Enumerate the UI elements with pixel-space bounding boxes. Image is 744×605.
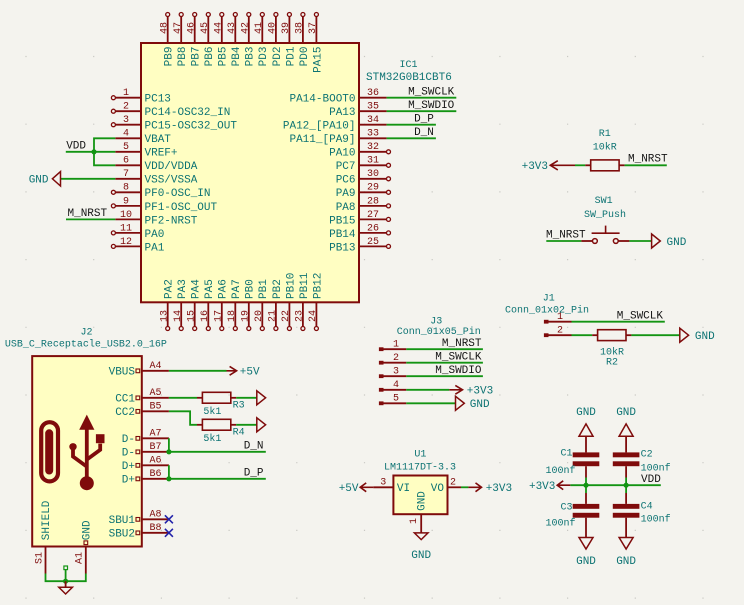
IC1 pin 24 PB12 [315,302,317,326]
wire CC2 to R4 [169,411,197,425]
svg-text:PA0: PA0 [145,229,165,241]
svg-text:PF0-OSC_IN: PF0-OSC_IN [145,188,211,200]
IC1 pin 20 PB1 [261,302,263,326]
svg-text:PB2: PB2 [272,279,284,299]
J2 pin A6 D+ [142,464,169,466]
J2 pin B7 D- [142,451,169,453]
svg-text:C1: C1 [560,449,572,460]
svg-text:M_SWCLK: M_SWCLK [617,310,664,322]
svg-text:PD3: PD3 [258,47,270,67]
svg-text:36: 36 [367,88,379,99]
svg-text:C2: C2 [641,450,653,461]
wire M_NRST to SW1 [546,240,581,242]
svg-text:M_SWDIO: M_SWDIO [435,365,482,377]
svg-text:VREF+: VREF+ [145,148,178,160]
svg-text:CC1: CC1 [115,394,135,406]
wire J1.2 to R2 [572,334,593,336]
wire SW1 to GND [629,240,651,242]
IC1 pin 35 PA13 [359,110,387,112]
svg-text:SW_Push: SW_Push [584,209,626,221]
IC1 pin 33 PA11_[PA9] [359,137,387,139]
svg-text:PB8: PB8 [177,47,189,67]
no-connect SBU2 [165,529,173,537]
svg-text:100nf: 100nf [545,465,575,477]
svg-text:R4: R4 [233,428,245,439]
svg-text:B7: B7 [149,442,161,453]
svg-text:42: 42 [240,22,251,34]
power symbol GND at J2 [65,581,67,587]
power symbol GND at R2 [680,328,689,342]
wire VDD to pin5 VREF+ [66,151,116,153]
junction C1 rail [583,483,588,488]
IC1 pin 44 PB5 [221,17,223,43]
capacitor C1 100nf [573,452,600,457]
svg-text:SBU1: SBU1 [109,515,136,527]
wire CC1 to R3 [169,397,197,399]
svg-text:PB13: PB13 [329,242,355,254]
wire M_NRST from J3.1 [406,348,483,350]
wire J3.4 to +3V3 [406,389,449,391]
svg-text:D-: D- [122,434,135,446]
svg-text:M_SWCLK: M_SWCLK [435,351,482,363]
power symbol +5V at U1 [360,483,373,492]
svg-text:2: 2 [123,102,129,113]
IC1 pin 2 PC14-OSC32_IN [115,110,141,112]
wire D_P from IC1 [387,124,436,126]
wire VDD to pin4 VBAT [94,138,115,165]
IC IC1 STM32G0B1CBT6 body [141,43,359,302]
IC1 pin 38 PD0 [302,17,304,43]
svg-text:D-: D- [122,448,135,460]
svg-text:GND: GND [616,407,636,419]
power symbol +3V3 at caps [557,481,570,490]
power symbol GND at R3 [257,391,266,405]
svg-text:PD2: PD2 [272,47,284,67]
J2 pin A1 GND [85,547,87,574]
svg-text:SW1: SW1 [595,196,613,207]
svg-text:PB15: PB15 [329,215,355,227]
IC1 pin 32 PA10 [359,151,387,153]
svg-text:27: 27 [367,210,379,221]
svg-text:7: 7 [123,169,129,180]
svg-text:A5: A5 [149,388,161,399]
svg-text:PB6: PB6 [204,47,216,67]
power symbol GND at U1 [414,533,428,540]
svg-text:30: 30 [367,169,379,180]
IC1 pin 39 PD1 [288,17,290,43]
svg-text:37: 37 [308,22,319,34]
svg-text:GND: GND [29,175,49,187]
svg-text:VI: VI [397,483,410,495]
wire +3V3 rail at caps [570,484,661,486]
IC1 pin 8 PF0-OSC_IN [115,191,141,193]
svg-text:A6: A6 [149,456,161,467]
wire M_SWDIO from IC1 [387,110,457,112]
svg-text:PB11: PB11 [299,272,311,299]
svg-text:43: 43 [227,22,238,34]
svg-text:39: 39 [281,22,292,34]
power symbol GND at J3 [456,396,465,410]
svg-text:VDD: VDD [66,140,86,152]
svg-text:26: 26 [367,223,379,234]
svg-text:GND: GND [411,550,431,562]
wire VO to +3V3 [461,486,468,488]
svg-text:PC15-OSC32_OUT: PC15-OSC32_OUT [145,121,238,133]
wire D_N net [169,438,266,452]
svg-text:12: 12 [120,237,132,248]
svg-text:R1: R1 [599,129,611,140]
svg-text:CC2: CC2 [115,407,135,419]
svg-text:+5V: +5V [339,483,359,495]
svg-text:PB1: PB1 [258,279,270,299]
svg-text:M_SWCLK: M_SWCLK [408,86,455,98]
IC1 pin 46 PB7 [194,17,196,43]
svg-text:4: 4 [393,380,399,391]
svg-text:2: 2 [450,478,456,489]
svg-text:PB10: PB10 [285,273,297,299]
svg-text:+3V3: +3V3 [529,481,555,493]
IC1 pin 26 PB14 [359,232,387,234]
U1 pin 2 VO [448,486,462,488]
svg-text:SHIELD: SHIELD [41,500,53,540]
svg-text:LM1117DT-3.3: LM1117DT-3.3 [384,462,456,473]
svg-text:B5: B5 [149,402,161,413]
power symbol +3V3 at R1 [550,161,575,170]
svg-text:VBAT: VBAT [145,134,172,146]
svg-text:PC13: PC13 [145,94,171,106]
power symbol +3V3 at J3 [449,385,462,394]
svg-text:D+: D+ [122,461,135,473]
svg-text:PA10: PA10 [329,148,355,160]
power symbol GND below cap [619,538,633,550]
IC1 pin 16 PA5 [207,302,209,326]
svg-text:18: 18 [227,310,238,322]
svg-text:PB3: PB3 [245,47,257,67]
J2 pin A5 CC1 [142,397,169,399]
svg-text:1: 1 [409,518,420,524]
svg-text:PA1: PA1 [145,242,165,254]
svg-text:PC14-OSC32_IN: PC14-OSC32_IN [145,107,231,119]
junction C2 rail [624,483,629,488]
no-connect SBU1 [165,515,173,523]
svg-text:GND: GND [82,520,94,540]
svg-text:16: 16 [200,310,211,322]
connector J1 pin 2 [544,333,549,337]
IC1 pin 10 PF2-NRST [115,218,141,220]
svg-text:D_P: D_P [244,467,264,479]
IC1 pin 22 PB10 [288,302,290,326]
svg-text:PB0: PB0 [245,279,257,299]
svg-text:PB5: PB5 [218,47,230,67]
svg-text:B6: B6 [149,469,161,480]
svg-text:100nf: 100nf [545,518,575,530]
svg-text:GND: GND [695,331,715,343]
svg-text:GND: GND [470,399,490,411]
svg-text:4: 4 [123,129,129,140]
svg-text:STM32G0B1CBT6: STM32G0B1CBT6 [366,72,452,84]
U1 pin 1 GND [420,514,422,533]
svg-text:PD0: PD0 [299,47,311,67]
resistor R3 5k1 [197,397,202,399]
IC1 pin 27 PB15 [359,218,387,220]
svg-text:PA2: PA2 [164,279,176,299]
IC1 pin 5 VREF+ [115,151,141,153]
svg-text:25: 25 [367,237,379,248]
svg-text:1: 1 [557,312,563,323]
connector J3 pin 3 [379,374,384,378]
svg-text:GND: GND [616,556,636,568]
wire R4 to GND [236,424,257,426]
svg-text:23: 23 [295,310,306,322]
IC1 pin 4 VBAT [115,137,141,139]
IC1 pin 18 PA7 [234,302,236,326]
J2 pin B5 CC2 [142,410,169,412]
IC1 pin 25 PB13 [359,245,387,247]
svg-text:14: 14 [173,310,184,322]
wire D_P net [169,465,266,479]
power symbol GND below cap [579,538,593,550]
IC1 pin 40 PD2 [275,17,277,43]
svg-text:D_P: D_P [414,113,434,125]
connector J3 pin 1 [379,347,384,351]
svg-text:VDD/VDDA: VDD/VDDA [145,161,198,173]
svg-text:PC7: PC7 [336,161,356,173]
power symbol GND at SW1 [652,234,661,248]
IC1 pin 17 PA6 [221,302,223,326]
wire D_N from IC1 [387,137,436,139]
svg-text:15: 15 [186,310,197,322]
svg-text:U1: U1 [414,450,426,461]
IC1 pin 13 PA2 [167,302,169,326]
svg-text:PB12: PB12 [312,273,324,299]
wire ground stub [65,570,67,582]
junction ground J2 [63,579,68,584]
svg-text:6: 6 [123,156,129,167]
svg-text:100nf: 100nf [641,514,671,526]
svg-text:PB9: PB9 [164,47,176,67]
svg-text:S1: S1 [34,552,45,564]
svg-text:32: 32 [367,142,379,153]
svg-text:VSS/VSSA: VSS/VSSA [145,175,198,187]
svg-text:PC6: PC6 [336,175,356,187]
svg-text:45: 45 [200,22,211,34]
svg-text:PA14-BOOT0: PA14-BOOT0 [289,94,355,106]
svg-text:M_NRST: M_NRST [628,154,668,166]
IC1 pin 7 VSS/VSSA [115,178,141,180]
svg-text:PA4: PA4 [191,279,203,299]
IC1 pin 12 PA1 [115,245,141,247]
svg-text:A4: A4 [149,361,161,372]
svg-text:PA12_[PA10]: PA12_[PA10] [283,121,356,133]
svg-text:GND: GND [576,407,596,419]
svg-text:GND: GND [417,491,429,511]
IC1 pin 29 PA9 [359,191,387,193]
connector J3 pin 4 [379,388,384,392]
J2 pin A7 D- [142,437,169,439]
wire SHIELD/GND to ground [46,574,86,582]
IC1 pin 28 PA8 [359,205,387,207]
svg-text:2: 2 [557,326,563,337]
junction VDD [91,149,96,154]
USB trident icon [85,426,89,478]
svg-text:47: 47 [173,22,184,34]
svg-text:J1: J1 [543,293,555,304]
svg-text:3: 3 [380,478,386,489]
svg-text:17: 17 [213,310,224,322]
svg-text:19: 19 [240,310,251,322]
svg-text:PA11_[PA9]: PA11_[PA9] [289,134,355,146]
IC1 pin 43 PB4 [234,17,236,43]
svg-text:PB14: PB14 [329,229,356,241]
svg-text:100nf: 100nf [641,463,671,475]
IC1 pin 31 PC7 [359,164,387,166]
wire M_SWCLK from IC1 [387,97,457,99]
IC1 pin 15 PA4 [194,302,196,326]
svg-text:PF2-NRST: PF2-NRST [145,215,198,227]
connector J3 pin 2 [379,361,384,365]
IC1 pin 34 PA12_[PA10] [359,124,387,126]
IC1 pin 19 PB0 [248,302,250,326]
svg-text:C4: C4 [641,502,653,513]
svg-text:13: 13 [159,310,170,322]
svg-text:PA5: PA5 [204,279,216,299]
svg-text:21: 21 [268,310,279,322]
wire R2 to GND [631,334,679,336]
svg-text:Conn_01x05_Pin: Conn_01x05_Pin [397,326,481,338]
resistor R4 5k1 [197,424,202,426]
svg-text:28: 28 [367,196,379,207]
wire R3 to GND [236,397,257,399]
svg-text:R3: R3 [233,401,245,412]
junction D_P [166,476,171,481]
svg-text:+3V3: +3V3 [467,386,493,398]
svg-text:38: 38 [295,22,306,34]
svg-text:1: 1 [123,88,129,99]
IC1 pin 9 PF1-OSC_OUT [115,205,141,207]
svg-text:GND: GND [576,556,596,568]
svg-text:PD1: PD1 [285,46,297,66]
svg-text:2: 2 [393,353,399,364]
svg-text:PA7: PA7 [231,279,243,299]
svg-text:PA13: PA13 [329,107,355,119]
svg-text:A7: A7 [149,429,161,440]
svg-text:D+: D+ [122,475,135,487]
IC1 pin 45 PB6 [207,17,209,43]
power symbol +5V at J2 [227,366,237,375]
svg-text:41: 41 [254,22,265,34]
IC1 pin 1 PC13 [115,97,141,99]
wire M_NRST from R1 [625,164,667,166]
regulator U1 body [393,476,447,515]
J2 pin A8 SBU1 [142,518,169,520]
wire M_SWCLK from J3.2 [406,362,483,364]
svg-text:A8: A8 [149,510,161,521]
svg-text:M_NRST: M_NRST [442,338,482,350]
svg-text:31: 31 [367,156,379,167]
svg-text:PA15: PA15 [312,47,324,73]
svg-text:IC1: IC1 [400,60,418,71]
IC1 pin 3 PC15-OSC32_OUT [115,124,141,126]
svg-text:34: 34 [367,115,379,126]
svg-text:PA6: PA6 [218,279,230,299]
svg-text:1: 1 [393,340,399,351]
svg-text:+3V3: +3V3 [522,161,548,173]
U1 pin 3 VI [373,486,393,488]
svg-text:20: 20 [254,310,265,322]
svg-text:PA8: PA8 [336,202,356,214]
wire M_SWDIO from J3.3 [406,375,483,377]
svg-text:GND: GND [667,237,687,249]
wire VBUS to +5V [169,370,227,372]
IC1 pin 47 PB8 [180,17,182,43]
svg-text:M_NRST: M_NRST [68,208,108,220]
IC1 pin 6 VDD/VDDA [115,164,141,166]
IC1 pin 14 PA3 [180,302,182,326]
svg-text:SBU2: SBU2 [109,529,135,541]
svg-text:PB7: PB7 [191,47,203,67]
IC1 pin 30 PC6 [359,178,387,180]
svg-text:PA9: PA9 [336,188,356,200]
IC1 pin 37 PA15 [315,17,317,43]
svg-text:3: 3 [123,115,129,126]
svg-text:8: 8 [123,183,129,194]
svg-text:M_SWDIO: M_SWDIO [408,100,455,112]
svg-text:3: 3 [393,367,399,378]
IC1 pin 11 PA0 [115,232,141,234]
svg-text:C3: C3 [560,503,572,514]
J2 pin B8 SBU2 [142,532,169,534]
J2 pin B6 D+ [142,478,169,480]
wire M_NRST to pin10 PF2-NRST [66,218,115,220]
svg-text:35: 35 [367,102,379,113]
IC1 pin 48 PB9 [167,17,169,43]
connector J1 pin 1 [544,320,549,324]
resistor R2 [592,334,597,336]
IC1 pin 23 PB11 [302,302,304,326]
svg-text:40: 40 [268,22,279,34]
J2 pin S1 SHIELD [45,547,47,574]
svg-text:22: 22 [281,310,292,322]
wire GND to pin7 VSS/VSSA [61,178,116,180]
svg-text:D_N: D_N [244,440,264,452]
svg-text:10kR: 10kR [593,142,617,154]
svg-text:PF1-OSC_OUT: PF1-OSC_OUT [145,202,218,214]
IC1 pin 41 PD3 [261,17,263,43]
svg-text:48: 48 [159,22,170,34]
IC1 pin 36 PA14-BOOT0 [359,97,387,99]
svg-text:PA3: PA3 [177,279,189,299]
svg-text:+3V3: +3V3 [486,483,512,495]
connector J2 body [32,356,142,546]
svg-text:29: 29 [367,183,379,194]
svg-text:44: 44 [213,22,224,34]
switch SW1 [581,240,592,242]
svg-text:VO: VO [431,483,445,495]
junction D_N [166,449,171,454]
svg-text:46: 46 [186,22,197,34]
power symbol GND at R4 [257,418,266,432]
wire +3V3 to R1 [575,164,585,166]
capacitor C3 100nf [585,485,587,493]
svg-text:+5V: +5V [240,367,260,379]
svg-text:B8: B8 [149,523,161,534]
IC1 pin 42 PB3 [248,17,250,43]
svg-text:11: 11 [120,223,132,234]
capacitor C4 100nf [625,485,627,493]
svg-text:24: 24 [308,310,319,322]
svg-text:5k1: 5k1 [203,433,221,445]
wire J3.5 to GND [406,402,455,404]
